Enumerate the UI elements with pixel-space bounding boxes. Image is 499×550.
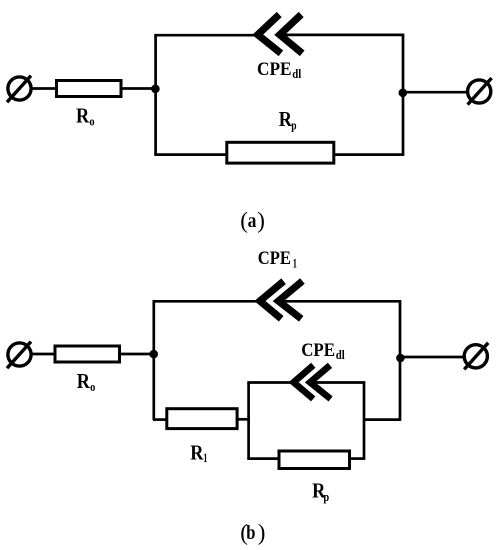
wire terminal T3 to resistor Ro (b) [30, 353, 55, 356]
wire inner box right vertical [363, 383, 366, 459]
node A (left junction dot) [151, 85, 160, 94]
wire right vertical upper branch [399, 301, 402, 421]
node D (right junction dot) [396, 354, 405, 363]
terminal T1 (left, circle-slash) [7, 76, 31, 103]
wire node B to terminal T2 [403, 91, 468, 94]
svg-text:p: p [323, 489, 329, 504]
svg-text:1: 1 [203, 450, 207, 465]
wire bottom-left horizontal to Rp [154, 153, 227, 156]
wire inner box top-left horizontal to CPEdl (b) [247, 381, 294, 384]
svg-text:CPE: CPE [257, 59, 292, 80]
resistor Ro [57, 81, 122, 97]
svg-text:o: o [89, 114, 94, 129]
wire right vertical of parallel box [402, 35, 405, 155]
CPE CPEdl (a) double chevron [258, 15, 303, 54]
svg-text:1: 1 [293, 256, 297, 271]
wire terminal T1 to resistor Ro [30, 87, 56, 90]
svg-text:p: p [291, 118, 296, 133]
wire bottom-right horizontal from Rp [334, 153, 404, 156]
node C (left junction dot) [149, 350, 158, 359]
svg-text:): ) [258, 520, 266, 545]
svg-text:o: o [90, 379, 95, 394]
wire node D to terminal T4 [400, 356, 465, 359]
terminal T2 (right, circle-slash) [468, 78, 492, 105]
CPE CPE1 double chevron [260, 281, 303, 319]
terminal T4 (right, circle-slash) [464, 343, 488, 370]
svg-text:R: R [190, 441, 204, 465]
svg-text:R: R [77, 369, 91, 393]
wire inner box top-right horizontal from CPEdl (b) [311, 381, 365, 384]
resistor Ro (b) [55, 346, 120, 362]
svg-text:b: b [246, 522, 255, 544]
resistor R1 [167, 409, 237, 429]
wire left vertical of parallel box [154, 35, 157, 154]
wire resistor Ro to node A [123, 87, 156, 90]
svg-text:CPE: CPE [258, 249, 291, 269]
wire inner box bottom-left horizontal to Rp (b) [247, 457, 278, 460]
CPE CPEdl (b) double chevron [294, 365, 331, 399]
svg-text:a: a [248, 210, 257, 232]
wire top-right horizontal from CPE1 [280, 300, 401, 303]
svg-text:dl: dl [292, 66, 301, 81]
wire top-left horizontal to CPEdl [154, 34, 258, 37]
svg-text:dl: dl [336, 347, 345, 362]
wire resistor Ro (b) to node C [121, 353, 154, 356]
wire top-left horizontal to CPE1 [153, 300, 261, 303]
wire inner box output to right vertical [364, 418, 400, 421]
wire node C to resistor R1 [153, 418, 166, 421]
wire inner box bottom-right horizontal from Rp (b) [350, 457, 365, 460]
node B (right junction dot) [399, 89, 408, 98]
resistor Rp (b) [279, 451, 350, 469]
svg-text:): ) [257, 208, 265, 233]
wire inner box left vertical [247, 383, 250, 459]
terminal T3 (left, circle-slash) [7, 342, 31, 369]
svg-text:CPE: CPE [301, 341, 335, 361]
wire resistor R1 to inner box [237, 418, 250, 421]
wire left vertical upper branch [152, 301, 155, 420]
svg-text:R: R [76, 104, 90, 128]
resistor Rp (a) [227, 142, 334, 163]
wire top-right horizontal from CPEdl [281, 34, 404, 37]
